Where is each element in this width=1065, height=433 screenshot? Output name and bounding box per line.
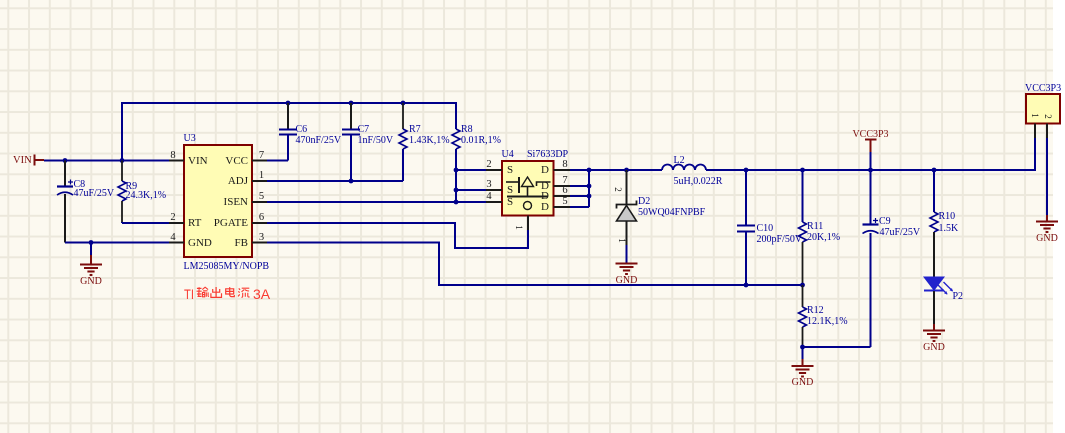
wire rail to connector <box>1034 138 1036 171</box>
diode D2 value <box>638 208 705 218</box>
resistor R9 label <box>126 182 138 192</box>
U3 pin 2 stub <box>169 222 184 224</box>
U3 pin 4 stub <box>169 242 184 244</box>
diode D2 label <box>638 197 650 207</box>
U4 pin 6 stub <box>554 195 571 197</box>
resistor R12 top lead <box>802 285 804 307</box>
U4 designator <box>502 150 514 160</box>
U4 pin number 7 <box>562 176 567 187</box>
U4 pin 3 stub <box>486 189 502 191</box>
U4 pin 1 stub <box>527 216 529 231</box>
U3 designator <box>184 134 196 144</box>
diode D2 pin 1 rotated <box>616 238 625 243</box>
ground label right <box>1036 234 1058 244</box>
junction R8/pin3 <box>454 188 459 193</box>
junction R12 bottom <box>800 345 805 350</box>
resistor R10 value <box>939 224 959 234</box>
inductor L2 label <box>674 156 685 166</box>
wire FB bus <box>267 243 803 286</box>
U4 pin name D c <box>541 191 549 202</box>
U4 pin number 2 <box>486 160 491 171</box>
resistor R7 value <box>409 136 450 146</box>
U3 pin number 2 <box>170 213 175 224</box>
junction ADJ C7 <box>349 179 354 184</box>
transistor U4 body <box>502 161 554 216</box>
inductor L2 value <box>674 177 723 187</box>
resistor R8 value <box>461 136 501 146</box>
U3 pin name RT <box>188 218 201 229</box>
gnd stub U3 <box>90 243 92 265</box>
resistor R11 bottom lead <box>802 242 804 285</box>
power port VIN stub <box>34 159 45 161</box>
U4 pin 2 stub <box>486 169 502 171</box>
U3 pin number 3 <box>259 233 264 244</box>
wire PGATE bus <box>267 223 528 248</box>
led P2 label <box>953 292 964 302</box>
diode D2 top lead <box>626 170 628 204</box>
junction FB/C10 <box>744 283 749 288</box>
resistor R9 <box>118 181 126 201</box>
wire top rail <box>121 102 456 104</box>
resistor R12 value <box>807 317 848 327</box>
wire switch node <box>570 169 662 171</box>
U4 pin 8 stub <box>554 169 571 171</box>
junction C10 <box>744 168 749 173</box>
resistor R8 bottom lead <box>455 149 457 202</box>
U3 part number LM25085MY/NOPB <box>184 262 270 272</box>
wire D pins tie <box>570 170 589 207</box>
power port VCC3P3 bar <box>865 139 877 141</box>
capacitor C8 <box>57 187 73 196</box>
diode D2 gnd wire <box>626 245 628 264</box>
capacitor C8 bottom lead <box>64 194 66 243</box>
resistor R11 value <box>807 233 840 243</box>
capacitor C7 bottom lead <box>350 135 352 182</box>
resistor R11 top lead <box>802 170 804 222</box>
wire S2 <box>456 169 486 171</box>
capacitor C6 top lead <box>287 103 289 129</box>
ground label under P2 <box>923 343 945 353</box>
U3 pin name FB <box>235 238 248 249</box>
ground symbol under R12 <box>792 366 814 377</box>
U4 pin 7 stub <box>554 185 571 187</box>
resistor R9 bottom lead <box>121 201 123 223</box>
junction R11 <box>800 168 805 173</box>
resistor R12 <box>799 307 807 327</box>
U3 pin name VIN <box>188 156 208 167</box>
capacitor C8 label <box>74 180 86 190</box>
capacitor C9 plus <box>873 218 878 223</box>
junction FB/R11/R12 <box>800 283 805 288</box>
U4 pin 4 stub <box>486 201 502 203</box>
capacitor C6 value <box>296 136 342 146</box>
capacitor C6 label <box>296 125 308 135</box>
U4 pin name S a <box>507 165 513 176</box>
resistor R12 bottom lead <box>802 327 804 347</box>
red note chinese glyphs <box>197 287 250 297</box>
junction at C8 top <box>63 158 68 163</box>
U4 pin number 3 <box>486 180 491 191</box>
resistor R10 top lead <box>933 170 935 212</box>
capacitor C10 value <box>757 235 803 245</box>
U3 pin number 8 <box>170 151 175 162</box>
resistor R10 <box>930 212 938 232</box>
wire R12 to C9 <box>803 346 871 348</box>
capacitor C9 label <box>879 217 891 227</box>
U3 pin 1 stub <box>252 180 267 182</box>
wire riser x122 to top rail <box>121 103 123 161</box>
U3 pin number 1 <box>259 171 264 182</box>
U3 pin number 6 <box>259 213 264 224</box>
capacitor C8 plus <box>68 180 73 185</box>
U4 pin number 8 <box>562 160 567 171</box>
U4 pin name S c <box>507 197 513 208</box>
power port VIN bar <box>34 155 36 166</box>
U4 pin 5 stub <box>554 206 571 208</box>
U4 pin number 6 <box>562 186 567 197</box>
U3 pin 3 stub <box>252 242 267 244</box>
junction D2 top <box>624 168 629 173</box>
resistor R9 value <box>126 191 167 201</box>
transistor U4 mosfet symbol <box>506 177 551 210</box>
capacitor C6 <box>279 130 297 135</box>
net label VCC3P3 right <box>1025 84 1061 94</box>
gnd stub R12 <box>802 347 804 366</box>
resistor R7 top lead <box>402 103 404 129</box>
U4 pin name D a <box>541 165 549 176</box>
capacitor C8 value <box>74 189 115 199</box>
capacitor C7 value <box>358 136 394 146</box>
junction D7 <box>587 184 592 189</box>
capacitor C10 bottom lead <box>745 232 747 286</box>
capacitor C7 <box>342 130 360 135</box>
resistor R7 label <box>409 125 421 135</box>
red note 3A <box>253 287 270 301</box>
U4 pin number 4 <box>486 192 491 203</box>
gnd stub connector <box>1046 215 1048 222</box>
junction top rail R7 <box>401 101 406 106</box>
inductor L2 <box>662 165 706 171</box>
connector pin 1 stub <box>1034 124 1036 139</box>
resistor R8 <box>452 129 460 149</box>
capacitor C7 label <box>358 125 370 135</box>
U4 pin name S b <box>507 185 513 196</box>
U4 pin number 1 rotated <box>514 225 523 230</box>
capacitor C10 <box>737 226 755 232</box>
U3 pin number 5 <box>259 192 264 203</box>
led P2 bottom lead <box>933 291 935 324</box>
junction GND wire <box>89 240 94 245</box>
U3 pin 6 stub <box>252 222 267 224</box>
capacitor C10 label <box>757 224 774 234</box>
wire R9 to RT <box>122 222 169 223</box>
capacitor C7 top lead <box>350 103 352 129</box>
resistor R8 label <box>461 125 473 135</box>
diode D2 bottom lead <box>626 221 628 245</box>
resistor R9 top lead <box>121 161 123 182</box>
junction R8/ISEN <box>454 200 459 205</box>
op-amp U3 body <box>184 145 252 257</box>
ground symbol under D2 <box>616 264 638 275</box>
power port VIN label <box>13 156 32 167</box>
ground label under U3 <box>80 277 102 287</box>
U3 pin 8 stub <box>169 160 184 162</box>
junction top rail C7 <box>349 101 354 106</box>
junction C9/VCC3P3 <box>868 168 873 173</box>
junction at R9/rail riser <box>120 158 125 163</box>
junction R8/pin2 <box>454 168 459 173</box>
wire output rail <box>706 169 1035 171</box>
capacitor C9 value <box>880 228 921 238</box>
ground symbol under P2 <box>923 331 945 342</box>
capacitor C8 top lead <box>64 161 66 186</box>
wire ADJ bus <box>267 180 403 182</box>
resistor R12 label <box>807 306 824 316</box>
ground symbol under U3 <box>80 265 102 276</box>
wire VIN to U3 pin8 <box>44 160 169 162</box>
U3 pin 5 stub <box>252 201 267 203</box>
U4 pin number 5 <box>562 197 567 208</box>
wire S3 <box>456 189 486 191</box>
U3 pin name ISEN <box>224 197 248 208</box>
red note TI <box>184 287 194 301</box>
U3 pin 7 stub <box>252 160 267 162</box>
junction D8 <box>587 168 592 173</box>
capacitor C9 bottom lead <box>870 233 872 347</box>
capacitor C10 top lead <box>745 170 747 225</box>
wire U3 GND pin to C8 <box>65 242 169 244</box>
resistor R7 <box>399 129 407 149</box>
ground label under R12 <box>792 378 814 388</box>
gnd stub P2 <box>933 324 935 331</box>
resistor R11 <box>799 222 807 242</box>
wire connector pin2 to gnd <box>1046 138 1048 215</box>
led P2 triangle <box>924 277 944 290</box>
wire ISEN bus <box>267 201 486 203</box>
power port VCC3P3 stem <box>870 140 872 171</box>
U3 pin name GND <box>188 238 212 249</box>
diode D2 triangle <box>617 206 637 222</box>
led P2 arrows <box>938 282 953 295</box>
diode D2 pin 2 rotated <box>613 187 622 192</box>
capacitor C9 <box>863 225 879 234</box>
junction D6 <box>587 194 592 199</box>
connector pin number 2 rotated <box>1042 114 1051 119</box>
resistor R7 bottom lead <box>402 149 404 181</box>
resistor R10 label <box>939 212 956 222</box>
junction R10 <box>932 168 937 173</box>
U4 pin name D b <box>541 181 549 192</box>
U3 pin name VCC <box>225 156 248 167</box>
ground label under D2 <box>616 276 638 286</box>
U4 pin name D d <box>541 202 549 213</box>
wire top rail corner to R8 <box>455 102 457 129</box>
junction top rail C6 <box>286 101 291 106</box>
power port VCC3P3 label <box>852 130 888 140</box>
connector pin number 1 rotated <box>1030 113 1039 118</box>
capacitor C9 top lead <box>870 170 872 224</box>
U4 part number Si7633DP <box>527 150 568 160</box>
resistor R10 bottom lead <box>933 232 935 277</box>
U3 pin number 4 <box>170 233 175 244</box>
U3 pin name PGATE <box>214 218 248 229</box>
connector pin 2 stub <box>1046 124 1048 139</box>
resistor R11 label <box>807 222 823 232</box>
connector P1 body <box>1026 94 1060 124</box>
U3 pin number 7 <box>259 151 264 162</box>
wire VCC to C6 <box>267 135 288 161</box>
U3 pin name ADJ <box>228 176 248 187</box>
diode D2 schottky bar <box>617 201 637 209</box>
led P2 cathode bar <box>924 290 944 292</box>
ground symbol right <box>1036 222 1058 233</box>
